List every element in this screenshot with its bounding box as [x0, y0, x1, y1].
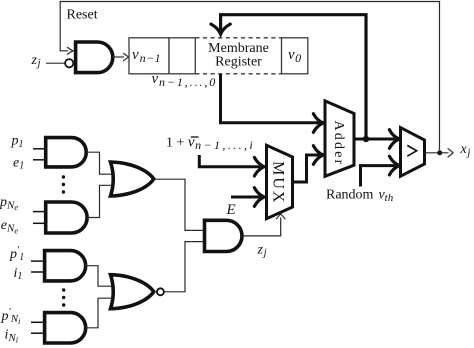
junction dot adder output — [363, 136, 369, 142]
junction dot x_j — [437, 150, 442, 155]
input stub i_Ni — [31, 332, 46, 334]
and-gate Gz z_j — [205, 220, 242, 251]
vertical dots between G1 and G2 — [62, 175, 65, 193]
and-gate G3 p-prime1 i1 — [45, 251, 86, 281]
input stub p-prime_1 — [31, 260, 46, 262]
membrane register cell 2 — [169, 38, 195, 74]
wire comparator output to x_j — [425, 152, 449, 154]
nor-gate NOR1 — [111, 275, 154, 309]
and-gate G4 p-primeNi iNi — [45, 313, 86, 343]
wire reset feedback loop from x_j junction to reset AND gate — [60, 2, 439, 151]
membrane register dashed body bottom — [195, 73, 281, 75]
wire register output to adder input A — [221, 74, 320, 123]
arrow into MUX input 2 — [254, 188, 264, 207]
input stub p_1 — [33, 148, 47, 150]
and-gate G2 pNe eNe — [46, 202, 87, 233]
svg-text:E: E — [226, 202, 236, 218]
input stub p_Ne — [33, 211, 47, 213]
and-gate U1 reset gate — [76, 42, 113, 73]
arrow into register left — [124, 53, 129, 60]
mux U2 trapezoid — [267, 145, 293, 218]
comparator U4 trapezoid — [401, 128, 425, 177]
arrow reset into reset gate — [67, 47, 73, 54]
wire 1+vbar input to MUX — [199, 155, 260, 167]
wire G1 output to OR1 — [86, 152, 115, 174]
or-gate OR1 — [111, 162, 154, 196]
svg-text:MUX: MUX — [269, 161, 286, 204]
arrow output x_j — [448, 149, 453, 157]
adder U3 trapezoid — [325, 101, 354, 176]
wire E input to MUX — [231, 196, 261, 199]
arrow into comparator input top — [389, 130, 399, 149]
wire OR1 output to Gz — [154, 179, 204, 230]
arrow into MUX input 1 — [254, 157, 264, 176]
svg-text:Random vth: Random vth — [326, 188, 394, 204]
wire thick feedback adder output to register top — [221, 15, 366, 139]
arrow into adder input B — [313, 146, 323, 165]
and-gate G1 p1 e1 — [46, 138, 87, 167]
wire z_j input to bubble — [46, 62, 65, 64]
input stub e_Ne — [33, 222, 47, 224]
wire Random v_th to comparator — [361, 166, 396, 187]
membrane register cell v_0 — [282, 38, 308, 74]
input stub e_1 — [33, 159, 47, 161]
svg-text:Adder: Adder — [331, 121, 346, 167]
membrane register dashed body top — [195, 37, 281, 39]
arrow into MUX select — [277, 214, 285, 219]
arrow down into register top — [211, 24, 230, 34]
vertical dots between G3 and G4 — [62, 288, 65, 306]
wire G4 output to NOR1 — [86, 298, 115, 328]
inverter bubble on reset gate input — [65, 59, 73, 67]
wire G2 output to OR1 — [87, 185, 115, 217]
wire NOR1 output to Gz — [164, 242, 204, 292]
wire reset gate output to register — [113, 56, 124, 58]
wire adder output to comparator — [354, 138, 396, 141]
arrow into adder input A — [313, 114, 323, 133]
svg-text:Reset: Reset — [67, 7, 98, 22]
membrane register cell v_n-1 — [129, 38, 169, 74]
svg-text:1 + vn−1,...,i: 1 + vn−1,...,i — [166, 134, 255, 152]
svg-text:Register: Register — [215, 55, 262, 70]
wire G3 output to NOR1 — [86, 266, 115, 287]
inverter bubble NOR1 output — [157, 288, 164, 295]
arrow into comparator input bottom — [389, 156, 399, 175]
label greater-than in comparator — [407, 145, 416, 156]
wire Gz output to MUX select — [242, 218, 281, 236]
overline on vbar — [191, 136, 199, 138]
wire MUX output to adder input B — [293, 155, 320, 182]
input stub p-prime_Ni — [31, 321, 46, 323]
input stub i_1 — [31, 271, 46, 273]
